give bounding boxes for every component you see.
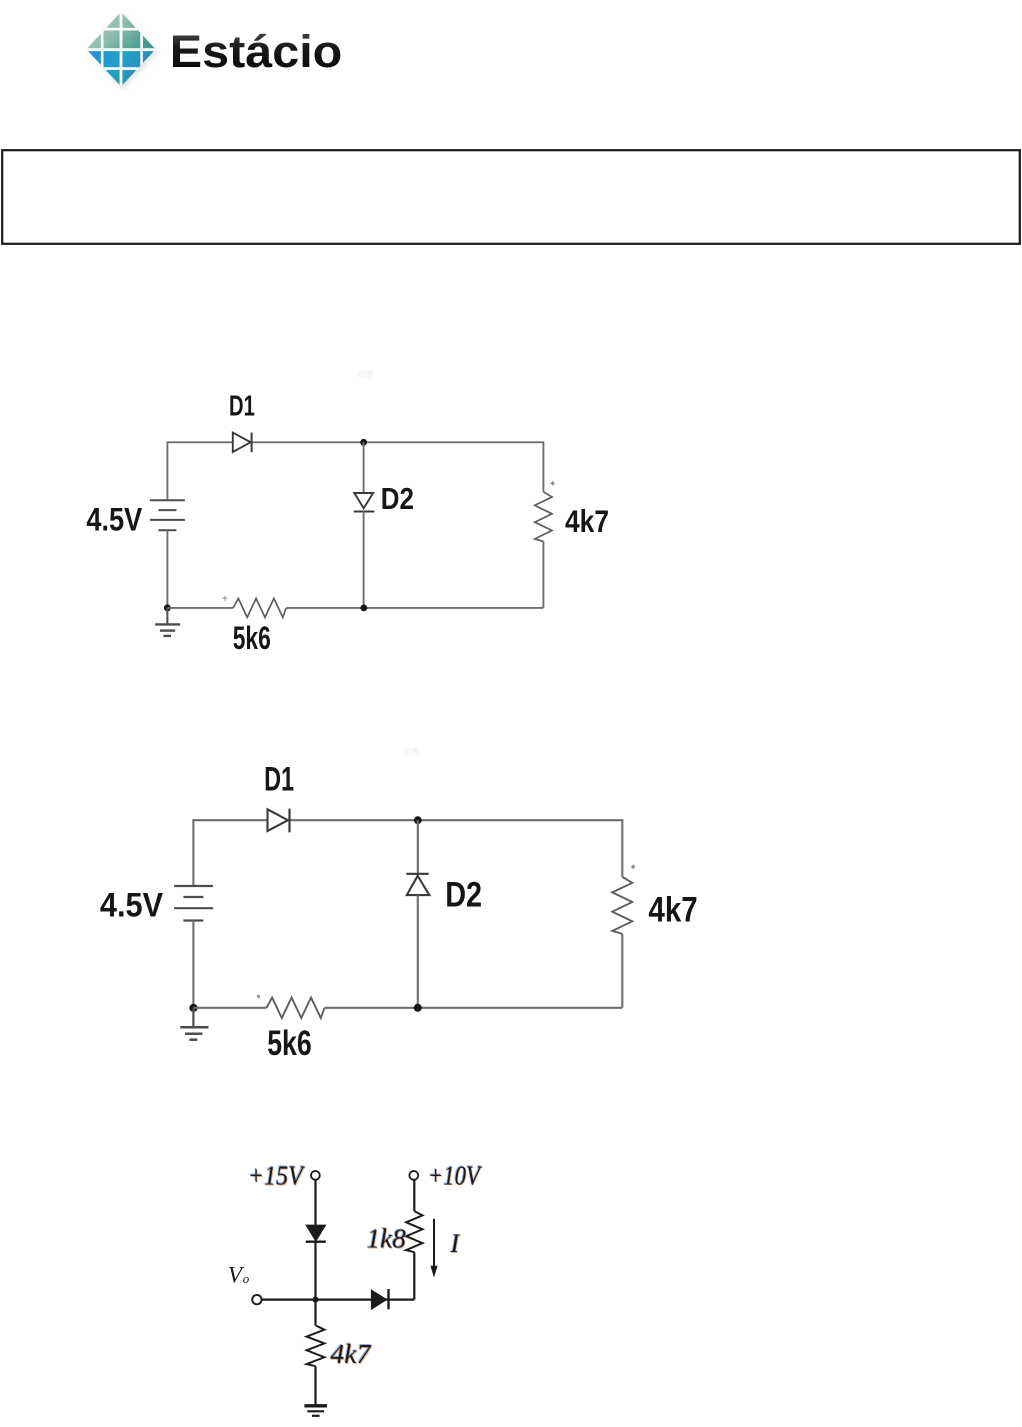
wire: C1 bottom rail right segment	[286, 607, 543, 609]
wire: C3 node to 4k7	[314, 1300, 316, 1326]
artifact dot left of 5k6 (circuit 2)	[257, 995, 260, 998]
label Vo (circuit 3)	[228, 1263, 250, 1289]
node: C1 top middle junction	[360, 439, 367, 446]
svg-text:4k7: 4k7	[648, 890, 697, 929]
wire: C3 +15V vertical	[314, 1180, 316, 1225]
resistor 4k7 (circuit 1)	[535, 492, 552, 542]
faint smudge artifact circuit 1	[357, 371, 375, 379]
diode D4 right (circuit 3)	[372, 1289, 389, 1309]
label +15V (circuit 3)	[247, 1160, 307, 1192]
logo shadow	[89, 15, 158, 90]
svg-text:4.5V: 4.5V	[86, 501, 142, 537]
svg-text:D1: D1	[229, 391, 255, 423]
svg-text:o: o	[243, 1271, 250, 1286]
diode D1 (circuit 1)	[233, 433, 252, 453]
label +10V (circuit 3)	[427, 1160, 484, 1192]
wire: C2 right vertical lower	[621, 934, 623, 1008]
wire: C3 diode to node	[314, 1242, 316, 1300]
wire: C2 middle vertical lower	[417, 895, 419, 1008]
wire: C2 top rail	[193, 820, 622, 886]
resistor 1k8 (circuit 3)	[406, 1211, 422, 1252]
svg-text:+15V: +15V	[248, 1161, 306, 1191]
battery 4.5V (circuit 2)	[174, 886, 213, 921]
ground (circuit 2)	[180, 1008, 208, 1040]
diode D3 down (circuit 3)	[306, 1225, 326, 1242]
resistor 4k7 (circuit 2)	[612, 877, 632, 934]
node: C1 bottom middle junction	[360, 605, 367, 612]
label 4k7 (circuit 3)	[330, 1338, 373, 1370]
wire: C1 top rail	[167, 442, 543, 500]
svg-text:4.5V: 4.5V	[100, 886, 163, 924]
diode D2 (circuit 1)	[354, 493, 375, 512]
ground (circuit 3)	[304, 1406, 327, 1416]
node: C2 bottom middle junction	[414, 1004, 422, 1012]
node: C3 output junction	[313, 1297, 319, 1303]
svg-text:1k8: 1k8	[367, 1224, 407, 1254]
battery 4.5V (circuit 1)	[150, 500, 185, 530]
terminal Vo (circuit 3)	[252, 1295, 261, 1304]
node: C2 bottom-left junction	[189, 1004, 197, 1012]
empty header box	[2, 150, 1020, 244]
svg-text:5k6: 5k6	[233, 620, 271, 656]
resistor 5k6 (circuit 1)	[233, 598, 286, 617]
wire: C2 bottom rail left segment	[193, 1007, 266, 1009]
svg-text:Estácio: Estácio	[170, 26, 342, 77]
ground (circuit 1)	[155, 608, 180, 636]
current arrow I (circuit 3)	[430, 1219, 437, 1278]
diode D2 (circuit 2)	[406, 874, 429, 895]
artifact dot above 4k7 (circuit 1)	[551, 481, 555, 486]
wire: C2 left bottom	[192, 921, 194, 1008]
svg-text:D1: D1	[264, 761, 294, 799]
artifact dot above 4k7 (circuit 2)	[631, 864, 636, 869]
node: C2 top middle junction	[414, 816, 422, 824]
svg-text:D2: D2	[381, 481, 414, 516]
wire: C1 right vertical lower	[542, 542, 544, 608]
faint smudge artifact circuit 2	[402, 748, 420, 756]
label 1k8 (circuit 3)	[366, 1223, 407, 1255]
resistor 4k7 (circuit 3)	[307, 1325, 325, 1366]
wire: C1 middle vertical upper	[363, 442, 365, 493]
svg-text:4k7: 4k7	[330, 1339, 372, 1369]
wire: C1 middle vertical lower	[363, 512, 365, 608]
label I (circuit 3)	[449, 1228, 462, 1259]
svg-text:I: I	[450, 1229, 461, 1258]
diode D1 (circuit 2)	[268, 809, 290, 833]
svg-text:D2: D2	[445, 875, 482, 914]
wire: C3 right vertical upper	[413, 1180, 415, 1211]
terminal +10V (circuit 3)	[409, 1171, 418, 1180]
wire: C3 4k7 to ground	[314, 1366, 316, 1405]
terminal +15V (circuit 3)	[311, 1171, 320, 1180]
Estácio logo diamond	[85, 11, 157, 87]
svg-text:4k7: 4k7	[565, 503, 609, 539]
resistor 5k6 (circuit 2)	[267, 998, 325, 1018]
wire: C3 right vertical lower	[413, 1252, 415, 1299]
wire: C2 bottom rail right segment	[325, 1007, 623, 1009]
svg-text:5k6: 5k6	[267, 1024, 312, 1063]
svg-text:+10V: +10V	[428, 1160, 483, 1190]
wire: C3 output horizontal	[262, 1298, 415, 1300]
wire: C1 left bottom	[166, 530, 168, 608]
wire: C1 bottom rail left segment	[167, 607, 233, 609]
node: C1 bottom-left junction	[164, 604, 171, 611]
artifact plus mark left of 5k6 (circuit 1)	[222, 596, 227, 601]
wire: C2 middle vertical upper	[417, 820, 419, 874]
